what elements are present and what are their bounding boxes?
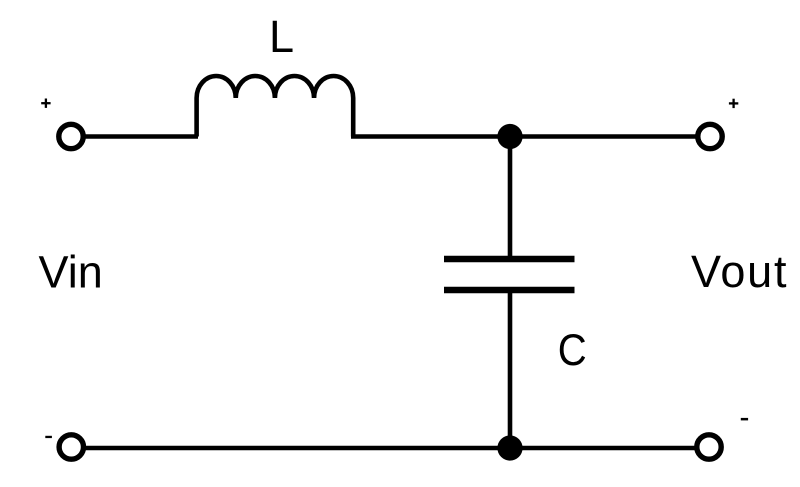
terminal Vout- — [697, 435, 721, 459]
junction node A — [497, 124, 522, 149]
capacitor C bottom plate — [444, 287, 575, 294]
inductor L — [197, 76, 354, 137]
svg-text:Vin: Vin — [39, 247, 103, 298]
capacitor C top plate — [444, 256, 575, 263]
wire node A to capacitor top plate — [508, 137, 513, 260]
label C — [558, 325, 587, 374]
wire from node A to Vout+ terminal — [510, 134, 698, 139]
svg-text:L: L — [269, 11, 294, 62]
terminal Vout+ — [698, 124, 722, 148]
wire from Vin+ terminal to inductor — [83, 134, 198, 139]
plus sign (input +) — [41, 99, 50, 108]
junction node B — [497, 435, 522, 460]
wire from inductor to node A — [351, 134, 510, 139]
plus sign (output +) — [729, 99, 738, 108]
bottom wire from Vin- terminal to node B — [84, 446, 510, 451]
svg-text:C: C — [558, 325, 587, 374]
minus sign (output -) — [741, 418, 748, 421]
terminal Vin- — [59, 435, 83, 459]
svg-text:Vout: Vout — [691, 246, 788, 297]
terminal Vin+ — [59, 124, 83, 148]
minus sign (input -) — [45, 436, 52, 438]
wire capacitor bottom plate to node B — [508, 290, 513, 448]
bottom wire from node B to Vout- terminal — [510, 446, 697, 451]
